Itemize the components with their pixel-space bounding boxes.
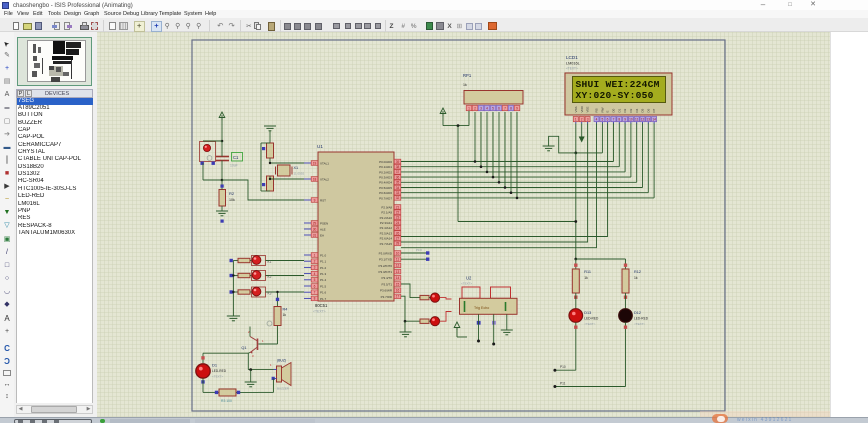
svg-text:XTAL2: XTAL2: [320, 177, 329, 181]
svg-text:D4: D4: [635, 108, 639, 112]
svg-text:15: 15: [396, 282, 400, 286]
svg-text:33: 33: [396, 191, 400, 195]
svg-text:LED-RED: LED-RED: [212, 369, 227, 373]
svg-text:18: 18: [313, 177, 317, 181]
svg-text:P0.1/AD1: P0.1/AD1: [379, 165, 392, 169]
svg-text:1k: 1k: [463, 83, 467, 87]
svg-text:P0.4/AD4: P0.4/AD4: [379, 181, 392, 185]
svg-text:P3.6/WR: P3.6/WR: [380, 289, 393, 293]
svg-text:P0.3/AD3: P0.3/AD3: [379, 176, 392, 180]
svg-text:P0.6/AD6: P0.6/AD6: [379, 191, 392, 195]
svg-text:5: 5: [314, 278, 316, 282]
svg-text:VDD: VDD: [580, 105, 584, 112]
svg-text:80C51: 80C51: [315, 303, 328, 308]
svg-text:P2.4/A12: P2.4/A12: [380, 226, 393, 230]
svg-text:4: 4: [314, 272, 316, 276]
svg-text:39: 39: [396, 160, 400, 164]
svg-text:P0.2/AD2: P0.2/AD2: [379, 170, 392, 174]
svg-text:3: 3: [480, 107, 482, 111]
svg-text:2: 2: [581, 118, 583, 122]
svg-text:7: 7: [504, 107, 506, 111]
svg-text:P1.5: P1.5: [320, 284, 327, 288]
svg-text:P0.7/AD7: P0.7/AD7: [379, 196, 392, 200]
svg-text:P1.0: P1.0: [320, 253, 327, 257]
svg-text:VEE: VEE: [586, 106, 590, 112]
svg-text:17: 17: [396, 295, 400, 299]
svg-text:10uF: 10uF: [230, 164, 238, 168]
svg-text:5: 5: [602, 118, 604, 122]
svg-text:P1.7: P1.7: [320, 297, 327, 301]
svg-text:6: 6: [314, 284, 316, 288]
svg-text:1k: 1k: [283, 313, 287, 317]
svg-text:26: 26: [396, 231, 400, 235]
svg-text:5: 5: [492, 107, 494, 111]
svg-text:1: 1: [575, 118, 577, 122]
svg-text:LM016L: LM016L: [566, 62, 580, 66]
svg-text:11.0592: 11.0592: [294, 172, 305, 176]
svg-text:8: 8: [510, 107, 512, 111]
svg-text:E: E: [606, 110, 610, 112]
svg-text:31: 31: [313, 233, 317, 237]
svg-text:RP1: RP1: [463, 73, 472, 78]
svg-text:27: 27: [396, 237, 400, 241]
svg-text:XY:020-SY:050: XY:020-SY:050: [576, 90, 654, 101]
svg-text:K1: K1: [268, 260, 272, 264]
svg-text:6: 6: [498, 107, 500, 111]
svg-text:P3.7/RD: P3.7/RD: [381, 295, 393, 299]
svg-text:9: 9: [624, 118, 626, 122]
svg-text:36: 36: [396, 175, 400, 179]
svg-text:32: 32: [396, 196, 400, 200]
svg-text:R4: R4: [283, 308, 288, 312]
svg-text:11: 11: [635, 118, 639, 122]
svg-text:P1.4: P1.4: [320, 278, 327, 282]
svg-text:D1: D1: [617, 108, 621, 112]
svg-text:P3.5/T1: P3.5/T1: [381, 282, 392, 286]
svg-text:8: 8: [618, 118, 620, 122]
svg-text:P2.0/A8: P2.0/A8: [381, 205, 392, 209]
svg-text:RST: RST: [320, 198, 326, 202]
svg-text:35: 35: [396, 181, 400, 185]
svg-text:X1: X1: [294, 166, 299, 170]
svg-text:25: 25: [396, 226, 400, 230]
svg-text:P2.3/A11: P2.3/A11: [380, 221, 392, 225]
svg-text:8: 8: [314, 297, 316, 301]
svg-text:22: 22: [396, 211, 400, 215]
svg-text:13: 13: [396, 270, 400, 274]
svg-text:LED-RED: LED-RED: [634, 317, 649, 321]
svg-text:<TEXT>: <TEXT>: [461, 282, 472, 286]
svg-text:R2: R2: [229, 191, 235, 196]
svg-text:R12: R12: [634, 270, 641, 274]
svg-text:19: 19: [313, 161, 317, 165]
svg-text:(BUZ): (BUZ): [277, 359, 286, 363]
svg-text:1k: 1k: [584, 276, 588, 280]
svg-text:10: 10: [629, 118, 633, 122]
svg-text:11: 11: [396, 258, 400, 262]
svg-text:RW: RW: [601, 107, 605, 112]
svg-text:LED-RED: LED-RED: [584, 317, 599, 321]
svg-text:10: 10: [396, 251, 400, 255]
svg-text:<TEXT>: <TEXT>: [634, 322, 645, 326]
svg-text:D1: D1: [212, 363, 218, 368]
svg-text:6: 6: [607, 118, 609, 122]
svg-text:38: 38: [396, 165, 400, 169]
svg-text:4: 4: [596, 118, 598, 122]
svg-text:D7: D7: [652, 108, 656, 112]
svg-text:23: 23: [396, 216, 400, 220]
svg-text:P3.2/INT0: P3.2/INT0: [378, 264, 392, 268]
svg-text:P1.2: P1.2: [320, 266, 327, 270]
svg-text:P0.0/AD0: P0.0/AD0: [379, 160, 392, 164]
svg-text:P11: P11: [560, 381, 566, 385]
svg-text:16: 16: [396, 289, 400, 293]
svg-text:D6: D6: [646, 108, 650, 112]
svg-text:7: 7: [314, 291, 316, 295]
svg-text:10k: 10k: [229, 198, 235, 202]
svg-text:R3 100: R3 100: [221, 399, 232, 403]
svg-text:P3.4/T0: P3.4/T0: [381, 276, 392, 280]
svg-text:14: 14: [652, 118, 656, 122]
svg-text:R11: R11: [584, 270, 591, 274]
svg-text:D3: D3: [629, 108, 633, 112]
svg-text:P10: P10: [560, 365, 566, 369]
svg-text:12: 12: [641, 118, 645, 122]
svg-text:D2: D2: [623, 108, 627, 112]
svg-text:ALE: ALE: [320, 227, 326, 231]
svg-text:1k: 1k: [634, 276, 638, 280]
svg-text:K3: K3: [268, 292, 272, 296]
svg-text:D5: D5: [641, 108, 645, 112]
svg-text:P2.5/A13: P2.5/A13: [380, 231, 393, 235]
svg-text:1: 1: [314, 253, 316, 257]
svg-text:<TEXT>: <TEXT>: [566, 67, 578, 71]
svg-text:Q1: Q1: [241, 346, 246, 350]
svg-text:14: 14: [396, 276, 400, 280]
svg-text:RS: RS: [595, 108, 599, 112]
svg-text:34: 34: [396, 186, 400, 190]
svg-text:P1.1: P1.1: [320, 260, 327, 264]
svg-text:<TEXT>: <TEXT>: [212, 375, 223, 379]
svg-text:PSEN: PSEN: [320, 221, 328, 225]
svg-text:P2.1/A9: P2.1/A9: [381, 211, 392, 215]
svg-text:U2: U2: [466, 276, 472, 281]
svg-text:C1: C1: [233, 155, 239, 160]
svg-text:VSS: VSS: [574, 106, 578, 112]
svg-text:12: 12: [396, 264, 400, 268]
svg-text:P2.6/A14: P2.6/A14: [380, 237, 393, 241]
svg-text:1: 1: [468, 107, 470, 111]
svg-text:P1.6: P1.6: [320, 291, 327, 295]
svg-text:<TEXT>: <TEXT>: [584, 322, 595, 326]
svg-text:EA: EA: [320, 233, 324, 237]
svg-text:P0.5/AD5: P0.5/AD5: [379, 186, 392, 190]
svg-text:P2.7/A15: P2.7/A15: [380, 242, 393, 246]
svg-text:Trig Echo: Trig Echo: [474, 306, 489, 310]
svg-text:P3.0/RXD: P3.0/RXD: [379, 251, 393, 255]
svg-text:P2.2/A10: P2.2/A10: [380, 216, 393, 220]
svg-text:2: 2: [314, 260, 316, 264]
svg-text:7: 7: [613, 118, 615, 122]
svg-text:3: 3: [314, 266, 316, 270]
svg-text:P3.3/INT1: P3.3/INT1: [378, 270, 392, 274]
svg-text:24: 24: [396, 221, 400, 225]
svg-text:P3.1/TXD: P3.1/TXD: [379, 258, 393, 262]
svg-text:21: 21: [396, 205, 400, 209]
svg-text:4: 4: [486, 107, 488, 111]
svg-text:LCD1: LCD1: [566, 55, 578, 60]
svg-text:P1.3: P1.3: [320, 272, 327, 276]
svg-text:9: 9: [314, 198, 316, 202]
svg-text:K2: K2: [268, 275, 272, 279]
svg-text:U1: U1: [317, 144, 323, 149]
svg-text:29: 29: [313, 221, 317, 225]
svg-text:D0: D0: [612, 108, 616, 112]
svg-text:13: 13: [647, 118, 651, 122]
svg-text:2: 2: [474, 107, 476, 111]
svg-text:D13: D13: [584, 311, 591, 315]
svg-text:37: 37: [396, 170, 400, 174]
svg-text:9: 9: [516, 107, 518, 111]
svg-text:P3.0: P3.0: [416, 248, 422, 252]
svg-text:BUZZER: BUZZER: [277, 387, 290, 391]
svg-text:3: 3: [587, 118, 589, 122]
svg-text:28: 28: [396, 242, 400, 246]
svg-text:30: 30: [313, 227, 317, 231]
svg-text:<TEXT>: <TEXT>: [313, 310, 326, 314]
svg-text:D12: D12: [634, 311, 641, 315]
svg-text:SHUI WEI:224CM: SHUI WEI:224CM: [576, 79, 660, 90]
svg-text:XTAL1: XTAL1: [320, 161, 329, 165]
